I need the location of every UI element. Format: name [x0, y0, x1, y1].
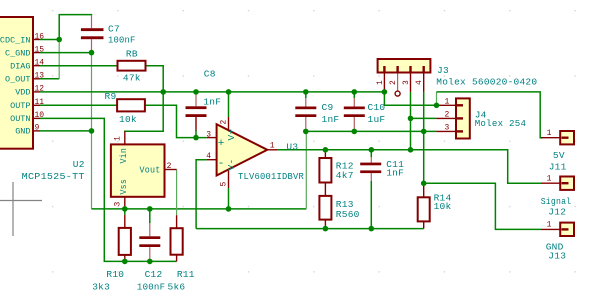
svg-text:11: 11: [35, 98, 45, 107]
svg-text:VDD: VDD: [15, 88, 30, 98]
svg-text:R560: R560: [336, 209, 360, 220]
svg-text:TLV6001IDBVR: TLV6001IDBVR: [238, 171, 304, 182]
svg-text:10: 10: [35, 111, 45, 120]
svg-text:3: 3: [114, 202, 123, 207]
svg-text:4: 4: [415, 80, 424, 85]
svg-text:OUTP: OUTP: [10, 101, 30, 111]
svg-text:C9: C9: [322, 102, 334, 113]
svg-text:1: 1: [547, 175, 552, 184]
svg-text:DIAG: DIAG: [10, 62, 30, 72]
svg-text:GND: GND: [15, 127, 30, 137]
svg-text:+: +: [218, 138, 225, 150]
svg-text:1uF: 1uF: [368, 114, 386, 125]
svg-text:C10: C10: [368, 102, 386, 113]
svg-text:-: -: [218, 158, 225, 170]
svg-text:1: 1: [270, 142, 275, 151]
svg-text:CDC_IN: CDC_IN: [0, 35, 31, 45]
svg-text:14: 14: [35, 59, 45, 68]
svg-text:OUTN: OUTN: [10, 114, 30, 124]
svg-text:5: 5: [220, 182, 229, 187]
svg-text:1: 1: [376, 80, 385, 85]
svg-text:15: 15: [35, 45, 45, 54]
svg-text:10k: 10k: [434, 201, 452, 212]
svg-text:V-: V-: [226, 159, 237, 171]
svg-text:3: 3: [445, 123, 450, 132]
svg-text:9: 9: [35, 124, 40, 133]
svg-text:J12: J12: [548, 206, 566, 217]
svg-text:2: 2: [389, 80, 398, 85]
svg-text:3: 3: [402, 80, 411, 85]
svg-text:1: 1: [547, 129, 552, 138]
svg-text:J11: J11: [549, 162, 567, 173]
svg-text:47k: 47k: [123, 73, 141, 84]
svg-text:J13: J13: [548, 250, 566, 261]
svg-text:C_GND: C_GND: [5, 48, 31, 58]
svg-text:5k6: 5k6: [168, 282, 186, 293]
svg-text:12: 12: [35, 85, 45, 94]
svg-text:O_OUT: O_OUT: [5, 75, 31, 85]
svg-text:1: 1: [114, 136, 123, 141]
svg-text:100nF: 100nF: [137, 282, 165, 293]
svg-text:J3: J3: [437, 65, 449, 76]
svg-text:10k: 10k: [119, 114, 137, 125]
svg-text:Signal: Signal: [541, 196, 572, 207]
svg-text:1nF: 1nF: [386, 167, 404, 178]
svg-text:Vout: Vout: [140, 164, 161, 175]
svg-text:1: 1: [445, 97, 450, 106]
svg-text:Molex 560020-0420: Molex 560020-0420: [436, 77, 537, 88]
svg-text:1: 1: [547, 221, 552, 230]
svg-text:16: 16: [35, 32, 45, 41]
svg-text:Vss: Vss: [118, 179, 129, 195]
svg-text:4k7: 4k7: [336, 170, 354, 181]
svg-text:U3: U3: [286, 141, 298, 152]
svg-text:2: 2: [220, 120, 229, 125]
svg-text:C12: C12: [145, 269, 163, 280]
svg-text:13: 13: [35, 72, 45, 81]
svg-text:V+: V+: [226, 129, 237, 141]
svg-text:R9: R9: [105, 91, 117, 102]
svg-text:C8: C8: [204, 68, 216, 79]
svg-text:U2: U2: [73, 159, 85, 170]
svg-text:100nF: 100nF: [108, 35, 136, 46]
svg-text:2: 2: [167, 162, 172, 171]
svg-text:Vin: Vin: [118, 148, 129, 164]
svg-text:3k3: 3k3: [92, 282, 110, 293]
svg-text:3: 3: [206, 130, 211, 139]
svg-text:2: 2: [445, 110, 450, 119]
svg-text:RB: RB: [126, 48, 138, 59]
svg-text:1nF: 1nF: [322, 114, 340, 125]
svg-text:5V: 5V: [553, 150, 565, 161]
svg-text:C7: C7: [108, 24, 120, 35]
svg-text:4: 4: [206, 152, 211, 161]
svg-text:R10: R10: [106, 269, 124, 280]
svg-text:Molex 254: Molex 254: [475, 118, 527, 129]
svg-text:R11: R11: [177, 269, 195, 280]
svg-text:MCP1525-TT: MCP1525-TT: [22, 171, 85, 182]
svg-text:1nF: 1nF: [203, 96, 221, 107]
